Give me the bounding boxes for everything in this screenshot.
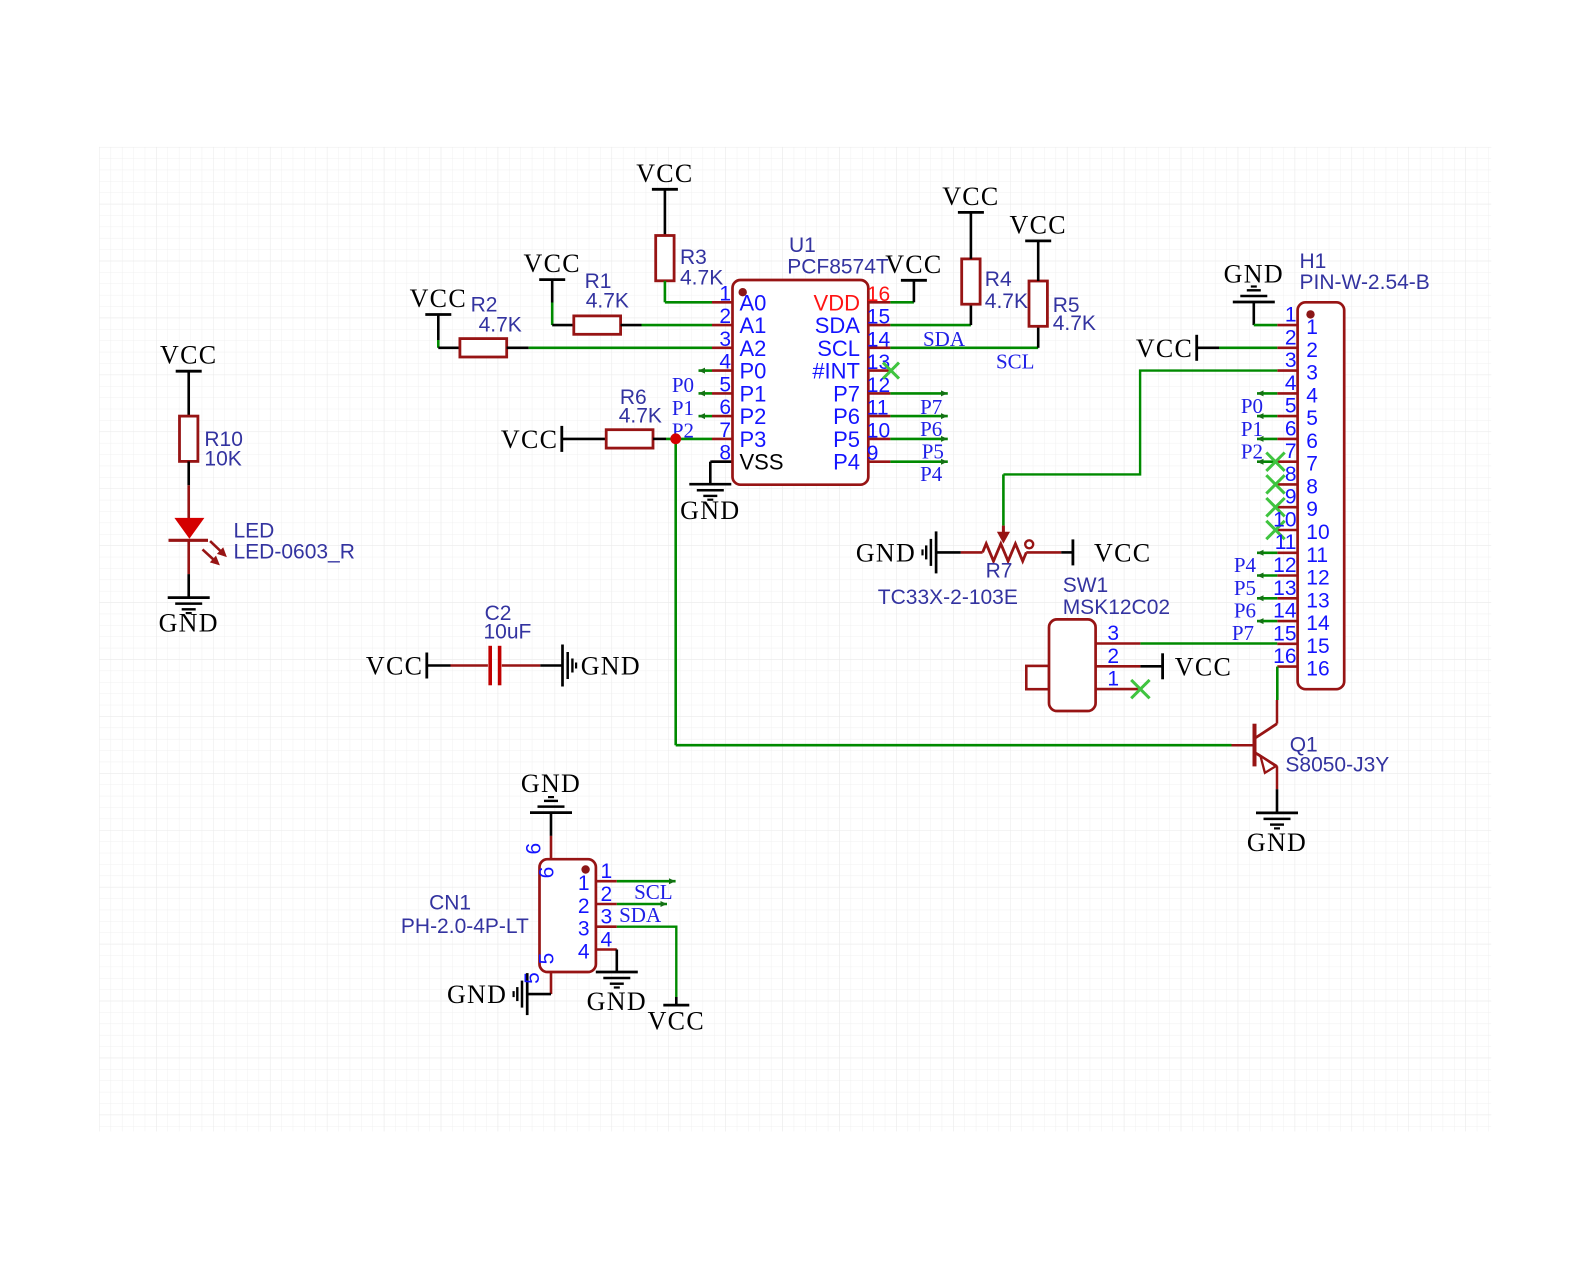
svg-text:1: 1 <box>719 282 731 305</box>
svg-text:P5: P5 <box>922 440 944 464</box>
svg-text:6: 6 <box>536 867 559 879</box>
svg-text:SCL: SCL <box>817 336 860 361</box>
svg-text:6: 6 <box>523 843 546 855</box>
svg-text:15: 15 <box>1306 635 1329 658</box>
svg-text:P6: P6 <box>1234 599 1256 623</box>
svg-text:P1: P1 <box>740 381 767 406</box>
svg-text:P1: P1 <box>1241 417 1263 441</box>
svg-text:SDA: SDA <box>923 327 966 351</box>
svg-text:2: 2 <box>601 883 613 906</box>
svg-text:VCC: VCC <box>410 284 467 313</box>
svg-text:4: 4 <box>1285 372 1297 395</box>
svg-text:P4: P4 <box>920 462 943 486</box>
svg-text:4.7K: 4.7K <box>479 314 522 337</box>
svg-text:GND: GND <box>159 608 219 637</box>
svg-text:VSS: VSS <box>740 450 784 475</box>
svg-text:3: 3 <box>1306 362 1318 385</box>
svg-text:4.7K: 4.7K <box>985 290 1028 313</box>
svg-text:VCC: VCC <box>636 159 693 188</box>
svg-text:SCL: SCL <box>634 880 673 904</box>
svg-text:13: 13 <box>1306 589 1329 612</box>
svg-text:4: 4 <box>578 941 590 964</box>
svg-text:P0: P0 <box>1241 394 1263 418</box>
svg-text:VCC: VCC <box>1094 538 1151 567</box>
svg-text:PIN-W-2.54-B: PIN-W-2.54-B <box>1300 271 1430 294</box>
svg-text:SW1: SW1 <box>1063 574 1109 597</box>
svg-text:VCC: VCC <box>1136 334 1193 363</box>
svg-text:P0: P0 <box>672 373 694 397</box>
svg-text:1: 1 <box>1285 304 1297 327</box>
svg-text:P4: P4 <box>833 450 860 475</box>
svg-text:2: 2 <box>1306 339 1318 362</box>
svg-text:P2: P2 <box>740 404 767 429</box>
svg-text:VCC: VCC <box>1010 210 1067 239</box>
svg-text:5: 5 <box>719 373 731 396</box>
svg-text:5: 5 <box>1285 395 1297 418</box>
svg-text:12: 12 <box>1273 554 1296 577</box>
svg-text:5: 5 <box>536 953 559 965</box>
svg-text:2: 2 <box>1285 326 1297 349</box>
svg-text:CN1: CN1 <box>429 892 471 915</box>
svg-text:R7: R7 <box>986 560 1013 583</box>
svg-text:P1: P1 <box>672 396 694 420</box>
svg-text:P3: P3 <box>740 427 767 452</box>
svg-text:9: 9 <box>867 442 879 465</box>
svg-text:8: 8 <box>1306 475 1318 498</box>
svg-text:7: 7 <box>1306 453 1318 476</box>
svg-text:15: 15 <box>1273 622 1296 645</box>
svg-text:12: 12 <box>867 374 890 397</box>
svg-text:P4: P4 <box>1234 553 1257 577</box>
svg-text:6: 6 <box>1285 417 1297 440</box>
svg-text:VCC: VCC <box>160 341 217 370</box>
svg-text:10: 10 <box>867 419 890 442</box>
svg-text:P0: P0 <box>740 359 767 384</box>
svg-text:3: 3 <box>601 906 613 929</box>
svg-text:8: 8 <box>1285 463 1297 486</box>
svg-text:SCL: SCL <box>996 350 1035 374</box>
svg-text:P2: P2 <box>1241 440 1263 464</box>
svg-text:4.7K: 4.7K <box>619 405 662 428</box>
svg-text:2: 2 <box>1107 645 1119 668</box>
svg-text:H1: H1 <box>1300 250 1327 273</box>
svg-text:SDA: SDA <box>815 313 861 338</box>
svg-text:GND: GND <box>856 538 916 567</box>
svg-text:P7: P7 <box>920 395 942 419</box>
svg-text:GND: GND <box>447 980 507 1009</box>
svg-text:1: 1 <box>1107 668 1119 691</box>
svg-text:4: 4 <box>1306 384 1318 407</box>
svg-text:7: 7 <box>719 419 731 442</box>
svg-text:6: 6 <box>1306 430 1318 453</box>
svg-text:VCC: VCC <box>942 182 999 211</box>
svg-text:4.7K: 4.7K <box>586 290 629 313</box>
svg-text:P5: P5 <box>833 427 860 452</box>
svg-text:16: 16 <box>1273 645 1296 668</box>
svg-text:GND: GND <box>1224 260 1284 289</box>
svg-text:TC33X-2-103E: TC33X-2-103E <box>878 586 1018 609</box>
svg-text:3: 3 <box>1107 622 1119 645</box>
svg-text:5: 5 <box>521 972 544 984</box>
svg-text:9: 9 <box>1306 498 1318 521</box>
svg-text:6: 6 <box>719 396 731 419</box>
svg-text:11: 11 <box>1275 531 1297 554</box>
svg-text:14: 14 <box>1306 612 1330 635</box>
svg-text:10K: 10K <box>204 447 241 470</box>
svg-text:GND: GND <box>680 496 740 525</box>
svg-text:2: 2 <box>578 895 590 918</box>
svg-text:R4: R4 <box>985 268 1012 291</box>
svg-text:1: 1 <box>601 860 613 883</box>
svg-text:LED-0603_R: LED-0603_R <box>234 541 355 564</box>
svg-text:PH-2.0-4P-LT: PH-2.0-4P-LT <box>401 915 529 938</box>
svg-text:VCC: VCC <box>648 1007 705 1036</box>
svg-text:4: 4 <box>719 351 731 374</box>
svg-text:VCC: VCC <box>885 250 942 279</box>
svg-text:SDA: SDA <box>619 903 662 927</box>
svg-text:A0: A0 <box>740 290 767 315</box>
svg-text:4.7K: 4.7K <box>680 266 723 289</box>
svg-text:VCC: VCC <box>1175 652 1232 681</box>
svg-text:A1: A1 <box>740 313 767 338</box>
svg-text:11: 11 <box>1306 544 1328 567</box>
svg-text:12: 12 <box>1306 567 1329 590</box>
svg-text:P6: P6 <box>920 417 942 441</box>
svg-text:U1: U1 <box>789 234 816 257</box>
svg-text:#INT: #INT <box>812 359 860 384</box>
svg-text:14: 14 <box>867 328 891 351</box>
svg-text:P7: P7 <box>833 381 860 406</box>
svg-text:5: 5 <box>1306 407 1318 430</box>
svg-text:P7: P7 <box>1232 621 1254 645</box>
svg-text:3: 3 <box>719 328 731 351</box>
svg-text:1: 1 <box>1306 316 1318 339</box>
svg-text:2: 2 <box>719 305 731 328</box>
svg-text:GND: GND <box>587 987 647 1016</box>
svg-text:16: 16 <box>1306 658 1329 681</box>
svg-text:VCC: VCC <box>366 652 423 681</box>
svg-text:10: 10 <box>1273 509 1296 532</box>
svg-text:8: 8 <box>719 442 731 465</box>
svg-text:VCC: VCC <box>501 425 558 454</box>
svg-text:GND: GND <box>581 652 641 681</box>
svg-text:13: 13 <box>1273 577 1296 600</box>
svg-text:16: 16 <box>867 283 890 306</box>
svg-text:LED: LED <box>234 520 275 543</box>
svg-text:9: 9 <box>1285 486 1297 509</box>
svg-text:4.7K: 4.7K <box>1053 312 1096 335</box>
svg-text:MSK12C02: MSK12C02 <box>1063 596 1170 619</box>
svg-text:4: 4 <box>601 929 613 952</box>
svg-text:10uF: 10uF <box>484 621 532 644</box>
svg-text:1: 1 <box>578 872 590 895</box>
svg-text:15: 15 <box>867 306 890 329</box>
svg-text:P5: P5 <box>1234 576 1256 600</box>
svg-text:7: 7 <box>1285 440 1297 463</box>
svg-text:GND: GND <box>521 769 581 798</box>
svg-text:14: 14 <box>1273 600 1297 623</box>
svg-text:S8050-J3Y: S8050-J3Y <box>1285 754 1389 777</box>
svg-text:VCC: VCC <box>524 249 581 278</box>
svg-text:10: 10 <box>1306 521 1329 544</box>
svg-text:GND: GND <box>1247 828 1307 857</box>
svg-text:3: 3 <box>1285 349 1297 372</box>
svg-text:11: 11 <box>867 397 889 420</box>
svg-text:13: 13 <box>867 351 890 374</box>
svg-text:A2: A2 <box>740 336 767 361</box>
svg-text:3: 3 <box>578 918 590 941</box>
svg-text:VDD: VDD <box>814 290 860 315</box>
svg-text:P6: P6 <box>833 404 860 429</box>
svg-text:PCF8574T: PCF8574T <box>787 256 889 279</box>
